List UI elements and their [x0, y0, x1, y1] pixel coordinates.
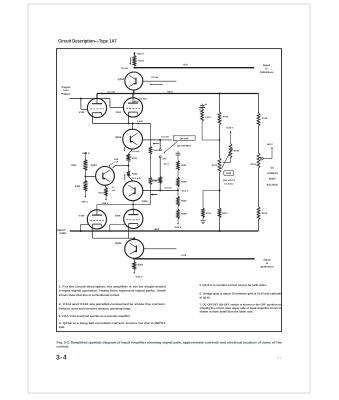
- wire cathode bus lower tubes: [91, 224, 93, 238]
- wire Q164 base to switch bottom node: [143, 189, 160, 191]
- svg-text:+125 V: +125 V: [136, 52, 144, 55]
- tube V134: [123, 98, 142, 117]
- svg-text:from: from: [63, 89, 68, 92]
- svg-text:R161: R161: [181, 164, 187, 167]
- resistor R171: [202, 208, 205, 218]
- junction switch bottom: [159, 189, 161, 191]
- svg-text:R156: R156: [153, 149, 159, 152]
- svg-text:R175: R175: [223, 116, 229, 119]
- resistor R151 emitter chain: [128, 149, 132, 154]
- svg-text:R144: R144: [138, 59, 144, 62]
- svg-text:A-input signal operation. Heav: A-input signal operation. Heavy lines re…: [59, 290, 166, 293]
- switch arm arrow: [164, 141, 177, 152]
- junction R151 bottom: [127, 165, 129, 167]
- svg-text:V104: V104: [79, 214, 85, 217]
- svg-text:34.8: 34.8: [114, 158, 119, 161]
- wire R158 down to lower plate bus: [149, 185, 151, 205]
- potentiometer R170 FINE DC BAL: [218, 158, 221, 173]
- svg-text:1. For the circuit description: 1. For the circuit description, the ampl…: [59, 285, 166, 288]
- resistor R111: [84, 160, 87, 171]
- resistor R279: [258, 168, 260, 207]
- ground under R171: [202, 218, 204, 221]
- wire to divider junction: [160, 189, 178, 191]
- svg-text:3-4: 3-4: [56, 354, 67, 361]
- transistor Q264: [133, 238, 135, 239]
- svg-text:+172: +172: [183, 63, 189, 66]
- svg-text:2. V114 and V134 are parallel-: 2. V114 and V134 are parallel-connected …: [59, 303, 166, 306]
- svg-text:side.: side.: [59, 326, 66, 329]
- wire Q264 base stub: [144, 248, 177, 250]
- wire +92.3 rail (signal path): [97, 93, 259, 95]
- wire V134 plate riser (signal): [132, 94, 134, 98]
- svg-text:6.1 mA: 6.1 mA: [108, 90, 116, 93]
- svg-text:Fig. 3-3. Simplified (partial): Fig. 3-3. Simplified (partial) diagram o…: [57, 341, 283, 345]
- svg-text:Q1984 Base: Q1984 Base: [260, 265, 274, 268]
- svg-text:01: 01: [277, 356, 281, 360]
- tube V114: [87, 98, 106, 117]
- svg-text:Q1984 Base: Q1984 Base: [260, 71, 274, 74]
- wire R170 down to R271: [219, 173, 221, 209]
- svg-text:R172: R172: [234, 149, 240, 152]
- current arrow 6.1 mA left: [101, 93, 103, 95]
- svg-text:R152: R152: [132, 173, 138, 176]
- svg-text:V114: V114: [79, 111, 85, 114]
- svg-text:Circuit Description—Type 1A7: Circuit Description—Type 1A7: [58, 39, 117, 44]
- svg-text:0.2 mA: 0.2 mA: [161, 135, 169, 138]
- label -INPUT (GND): [57, 229, 59, 230]
- svg-text:R164: R164: [181, 212, 187, 215]
- svg-text:BALANCE: BALANCE: [267, 183, 279, 186]
- svg-text:OFF: OFF: [163, 157, 168, 160]
- wiper terminal symbol: [260, 157, 263, 160]
- resistor R161: [177, 161, 180, 171]
- node -131V under R264: [133, 270, 135, 273]
- node -150V under R123: [84, 191, 86, 196]
- svg-text:6.1 mA: 6.1 mA: [139, 98, 147, 101]
- svg-text:DC BAL): DC BAL): [225, 182, 234, 185]
- svg-text:0.5 ma: 0.5 ma: [151, 76, 159, 79]
- svg-text:4.7: 4.7: [112, 186, 116, 189]
- wire C175 to main column: [201, 121, 203, 140]
- wire cathode bus upper tubes: [91, 113, 93, 124]
- svg-text:(GND): (GND): [59, 232, 66, 235]
- svg-text:11.4 mA: 11.4 mA: [131, 150, 140, 153]
- svg-text:−131 V: −131 V: [135, 276, 143, 279]
- svg-text:R133: R133: [98, 192, 104, 195]
- current arrow up at R152: [124, 175, 126, 180]
- wire +172 output (signal path, lower): [134, 258, 253, 260]
- svg-text:Q264: Q264: [115, 242, 122, 245]
- wire +92.3 corner down right column: [258, 94, 260, 114]
- node -150V under divider: [177, 219, 179, 224]
- svg-text:−150 V: −150 V: [174, 226, 182, 229]
- svg-text:16 mA: 16 mA: [121, 67, 128, 70]
- transistor Q104: [96, 167, 115, 186]
- schematic frame: [57, 49, 282, 332]
- svg-text:DC: DC: [271, 166, 275, 169]
- junction -23.4 V node: [177, 187, 179, 197]
- FINE box label: [224, 170, 234, 175]
- resistor R175 plate load: [219, 94, 221, 113]
- svg-text:+172: +172: [181, 254, 187, 257]
- svg-text:COMMON: COMMON: [267, 172, 278, 175]
- svg-text:1 mA: 1 mA: [137, 120, 143, 123]
- svg-text:R111: R111: [71, 164, 77, 167]
- svg-text:simplify the circuit. Also upp: simplify the circuit. Also upper side of…: [200, 307, 282, 310]
- switch ON-OFF box label: [173, 136, 195, 141]
- resistor C175 leg: [201, 109, 204, 122]
- svg-text:ON-OFF: ON-OFF: [180, 137, 190, 140]
- svg-text:R151: R151: [132, 157, 138, 160]
- svg-text:mA: mA: [112, 189, 116, 192]
- svg-text:11.4 mA: 11.4 mA: [132, 177, 141, 180]
- svg-text:7. DC OFFSET ON-OFF switch is: 7. DC OFFSET ON-OFF switch is shown in t…: [200, 303, 282, 306]
- svg-text:6. Voltage gain is about 16 be: 6. Voltage gain is about 16 between grid…: [200, 293, 282, 296]
- current arrow 16 mA: [129, 58, 131, 64]
- svg-text:Q164: Q164: [142, 200, 149, 203]
- svg-text:FINE: FINE: [226, 172, 232, 175]
- resistor R162: [177, 170, 179, 177]
- node +225V supply left: [85, 152, 87, 154]
- svg-text:Q174: Q174: [164, 163, 170, 166]
- node +125V supply top: [133, 52, 135, 54]
- tube V104: [87, 210, 106, 229]
- svg-text:(DC OFFSET): (DC OFFSET): [177, 144, 191, 147]
- wire Q144 base (open, switch OFF): [143, 80, 177, 82]
- svg-text:R170: R170: [212, 164, 218, 167]
- svg-text:−23.4 V: −23.4 V: [181, 189, 189, 192]
- svg-text:Q144: Q144: [118, 78, 125, 81]
- transistor Q164: [128, 176, 133, 181]
- svg-text:+125 V: +125 V: [226, 127, 234, 130]
- svg-text:+65 V: +65 V: [267, 143, 274, 146]
- wire lower grid rail +86.1: [70, 230, 259, 232]
- resistor R264: [133, 259, 135, 262]
- resistor R152: [127, 171, 130, 176]
- potentiometer R178 DC common mode balance: [257, 153, 260, 168]
- transistor Q154: [132, 123, 134, 129]
- svg-text:3. V114, V134 and Q144 operate: 3. V114, V134 and Q144 operate as a casc…: [59, 315, 131, 318]
- svg-text:Q154: Q154: [115, 136, 122, 139]
- wire V204 grid branch: [109, 230, 111, 232]
- junction Q104 base node: [84, 175, 86, 177]
- svg-text:V204: V204: [115, 214, 121, 217]
- svg-text:R123: R123: [75, 185, 81, 188]
- svg-text:R171: R171: [206, 212, 212, 215]
- wire Q144 emitter down: [133, 90, 135, 94]
- svg-text:+225 V: +225 V: [82, 152, 90, 155]
- wire V104 grid branch: [80, 225, 82, 232]
- svg-text:R279: R279: [262, 212, 268, 215]
- svg-text:INPUT: INPUT: [63, 93, 71, 96]
- resistor R144: [133, 56, 136, 67]
- resistor R156 column top: [149, 146, 152, 154]
- wire +172 output (signal path, upper): [134, 67, 253, 69]
- svg-text:R178,: R178,: [250, 163, 256, 166]
- svg-text:MODE: MODE: [269, 178, 276, 181]
- resistor R271: [218, 208, 221, 218]
- svg-text:C175: C175: [205, 116, 211, 119]
- resistor R172: [229, 144, 232, 159]
- svg-text:INPUT: INPUT: [59, 229, 66, 232]
- wire input grid line: [69, 98, 110, 100]
- svg-text:arrows show direction of conve: arrows show direction of conventional cu…: [59, 294, 121, 297]
- resistor R123: [84, 176, 86, 180]
- resistor R176: [257, 113, 260, 126]
- wire Q154 right to ON-OFF junction: [143, 139, 161, 141]
- svg-text:mA: mA: [115, 161, 119, 164]
- resistor R166 in switch leg: [159, 177, 162, 184]
- trimmer capacitor C175: [201, 104, 203, 106]
- resistor R158: [149, 154, 151, 177]
- resistor R133 emitter of Q104: [105, 185, 106, 187]
- junction Q264 emitter to output: [133, 257, 135, 260]
- svg-text:of Q144.: of Q144.: [200, 296, 211, 299]
- svg-text:Reduces noise and increases dy: Reduces noise and increases dynamic oper…: [59, 307, 132, 310]
- wire to R171 leg: [203, 189, 220, 191]
- tube V204: [124, 209, 143, 228]
- svg-text:V134: V134: [115, 111, 121, 114]
- svg-text:−150 V: −150 V: [80, 200, 88, 203]
- svg-text:4. Q154 is a long-tail constan: 4. Q154 is a long-tail constant-current …: [59, 322, 166, 325]
- svg-text:shown in more detail than the: shown in more detail than the lower side…: [200, 311, 254, 314]
- resistor R163: [177, 196, 180, 206]
- wire right column down to lower rail: [258, 220, 260, 231]
- capacitor C161 top of divider: [177, 151, 179, 153]
- svg-text:R264: R264: [138, 264, 144, 267]
- wire Q104 collector to R151 node: [113, 166, 116, 169]
- wire V114 plate riser (signal): [96, 94, 98, 99]
- resistor R164: [177, 206, 179, 210]
- node -150V under R133: [105, 196, 107, 199]
- wire lower plate bus: [97, 204, 150, 206]
- svg-text:R176: R176: [262, 117, 268, 120]
- svg-text:(SET VOLTS: (SET VOLTS: [223, 179, 236, 182]
- svg-text:5. Q174 is a constant-current: 5. Q174 is a constant-current source for…: [200, 284, 267, 287]
- svg-text:+92.3: +92.3: [167, 90, 174, 93]
- svg-text:R158: R158: [152, 179, 158, 182]
- svg-text:+86.1: +86.1: [154, 228, 161, 231]
- switch contacts S474: [159, 140, 161, 149]
- svg-text:R162: R162: [181, 180, 187, 183]
- transistor Q144: [125, 72, 143, 90]
- svg-text:R163: R163: [181, 200, 187, 203]
- junction collector Q144: [133, 67, 135, 69]
- svg-text:Q104: Q104: [91, 164, 98, 167]
- svg-text:0.2 mA: 0.2 mA: [165, 186, 173, 189]
- label Signal from INPUT: [61, 86, 63, 87]
- svg-text:controls.: controls.: [57, 344, 70, 348]
- svg-text:R271: R271: [222, 212, 228, 215]
